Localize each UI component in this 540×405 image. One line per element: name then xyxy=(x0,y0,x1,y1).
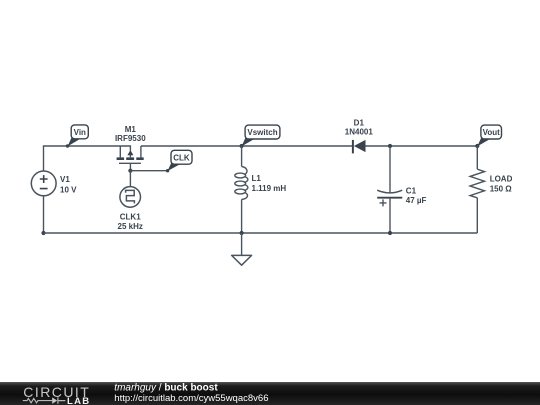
svg-text:47 µF: 47 µF xyxy=(406,196,427,205)
voltage source V1 xyxy=(31,171,77,196)
node dot: C1 top xyxy=(388,144,392,148)
wire: gate junction to CLK flag xyxy=(130,170,167,172)
CircuitLab logo xyxy=(23,384,91,405)
svg-text:150 Ω: 150 Ω xyxy=(490,184,513,193)
svg-text:Vin: Vin xyxy=(74,128,86,137)
clock source CLK1 xyxy=(118,171,143,231)
svg-text:C1: C1 xyxy=(406,187,417,196)
node dot: L1 / bottom rail / ground xyxy=(240,231,244,235)
node dot: V1 / bottom rail xyxy=(41,231,45,235)
svg-text:CLK1: CLK1 xyxy=(120,212,141,221)
svg-text:LOAD: LOAD xyxy=(490,175,513,184)
flag CLK xyxy=(166,150,192,172)
node dot: gate junction xyxy=(128,169,132,173)
svg-text:Vout: Vout xyxy=(483,128,501,137)
svg-text:LAB: LAB xyxy=(67,396,90,405)
svg-text:http://circuitlab.com/cyw55wqa: http://circuitlab.com/cyw55wqac8v66 xyxy=(114,393,268,404)
node dot: C1 bottom xyxy=(388,231,392,235)
node dot: Vout xyxy=(475,144,479,148)
wire: V1 bottom lead xyxy=(43,196,45,233)
ground xyxy=(232,233,252,265)
svg-text:1N4001: 1N4001 xyxy=(345,128,374,137)
wire: M1 drain to D1 cathode (top rail middle) xyxy=(141,145,353,147)
transistor M1 (PMOS IRF9530) xyxy=(115,125,146,171)
wire: top rail left (V1 top lead to M1 source) xyxy=(44,146,131,171)
flag Vswitch xyxy=(242,125,280,146)
diode D1 (1N4001) xyxy=(345,118,374,153)
svg-text:IRF9530: IRF9530 xyxy=(115,134,146,143)
flag Vout xyxy=(477,125,501,146)
wire: bottom rail xyxy=(44,232,478,234)
svg-text:10 V: 10 V xyxy=(60,185,77,194)
resistor LOAD xyxy=(470,146,512,233)
svg-text:D1: D1 xyxy=(354,118,365,127)
node dot: Vswitch xyxy=(240,144,244,148)
svg-text:Vswitch: Vswitch xyxy=(247,128,277,137)
svg-text:L1: L1 xyxy=(252,174,262,183)
capacitor C1 xyxy=(377,146,426,233)
inductor L1 xyxy=(235,146,287,233)
flag Vin xyxy=(66,125,88,148)
svg-text:V1: V1 xyxy=(60,175,70,184)
wire: D1 anode to Vout corner (top rail right) xyxy=(366,145,478,147)
svg-text:1.119 mH: 1.119 mH xyxy=(252,184,287,193)
svg-text:CLK: CLK xyxy=(173,153,190,162)
svg-text:tmarhguy / buck boost: tmarhguy / buck boost xyxy=(114,382,218,393)
svg-text:M1: M1 xyxy=(125,125,137,134)
footer bar xyxy=(0,382,540,405)
svg-text:25 kHz: 25 kHz xyxy=(118,222,143,231)
